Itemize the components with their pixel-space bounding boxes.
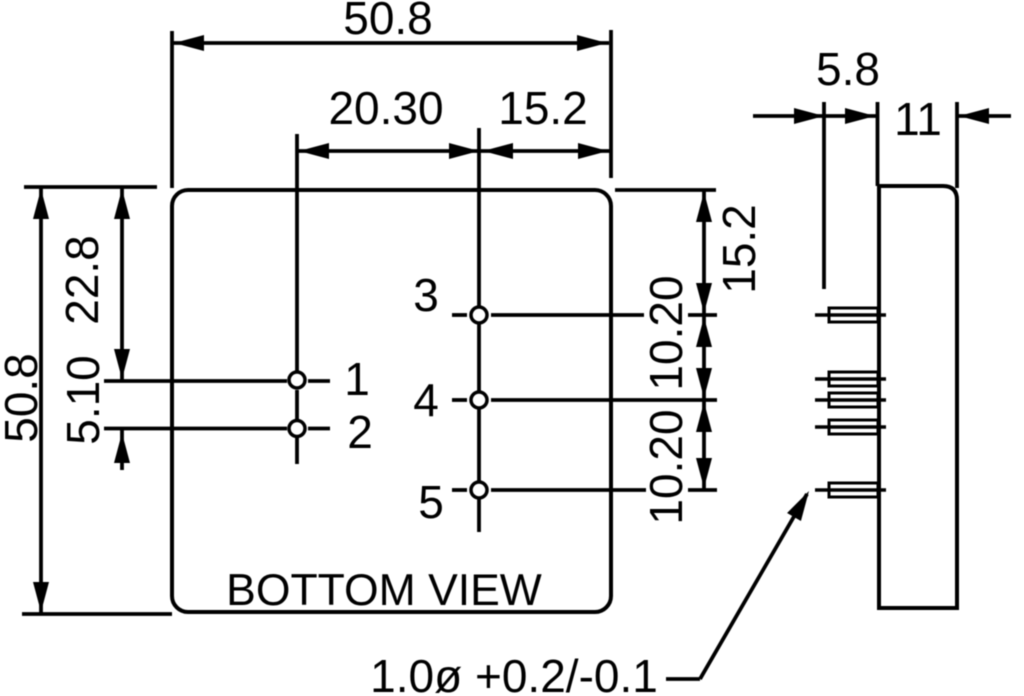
svg-text:20.30: 20.30 xyxy=(328,82,443,134)
svg-text:15.2: 15.2 xyxy=(498,82,588,134)
svg-text:5: 5 xyxy=(418,476,444,528)
svg-text:3: 3 xyxy=(413,269,439,321)
svg-text:5.8: 5.8 xyxy=(816,43,880,95)
svg-text:11: 11 xyxy=(894,93,942,145)
svg-text:22.8: 22.8 xyxy=(56,235,108,325)
svg-text:5.10: 5.10 xyxy=(57,355,109,445)
svg-text:15.2: 15.2 xyxy=(713,204,765,294)
svg-text:1.0ø +0.2/-0.1: 1.0ø +0.2/-0.1 xyxy=(370,650,658,696)
svg-text:10.20: 10.20 xyxy=(640,275,692,390)
svg-text:1: 1 xyxy=(344,353,370,405)
svg-text:50.8: 50.8 xyxy=(343,0,433,44)
svg-text:50.8: 50.8 xyxy=(0,353,47,443)
svg-text:10.20: 10.20 xyxy=(640,409,692,524)
svg-text:2: 2 xyxy=(347,406,373,458)
svg-text:BOTTOM VIEW: BOTTOM VIEW xyxy=(226,566,542,615)
svg-text:4: 4 xyxy=(413,374,439,426)
